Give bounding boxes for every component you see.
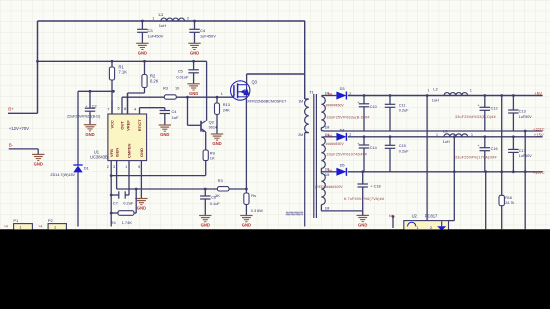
svg-text:#####450V: #####450V bbox=[326, 142, 345, 146]
svg-text:7.1K: 7.1K bbox=[119, 70, 128, 75]
svg-text:1: 1 bbox=[54, 225, 56, 229]
svg-text:GND: GND bbox=[139, 148, 144, 157]
svg-text:1M: 1M bbox=[325, 206, 330, 210]
svg-text:1uF450V: 1uF450V bbox=[200, 33, 216, 38]
svg-text:1M: 1M bbox=[298, 99, 303, 103]
svg-text:GND: GND bbox=[189, 91, 198, 96]
svg-text:0.01uF: 0.01uF bbox=[176, 74, 189, 79]
svg-text:33uF25V#%(17VA)D##: 33uF25V#%(17VA)D## bbox=[455, 156, 497, 160]
svg-text:1: 1 bbox=[20, 225, 22, 229]
svg-text:1M: 1M bbox=[325, 126, 330, 130]
svg-text:0.2uF: 0.2uF bbox=[399, 109, 409, 113]
svg-text:+15TC: +15TC bbox=[533, 171, 545, 175]
svg-text:1uH: 1uH bbox=[432, 98, 439, 102]
svg-text:1uH: 1uH bbox=[443, 140, 450, 144]
svg-text:7: 7 bbox=[107, 108, 109, 112]
svg-text:1uF450V: 1uF450V bbox=[148, 33, 164, 38]
svg-text:0.2K: 0.2K bbox=[150, 79, 159, 84]
svg-text:0.2uF: 0.2uF bbox=[399, 150, 409, 154]
svg-text:b4: b4 bbox=[328, 134, 332, 138]
svg-text:+: + bbox=[357, 142, 359, 146]
svg-text:33uF25V#%33(B-D)##: 33uF25V#%33(B-D)## bbox=[455, 115, 496, 119]
svg-text:0.2uF: 0.2uF bbox=[123, 201, 134, 206]
svg-text:GND: GND bbox=[212, 141, 221, 146]
svg-text:C11: C11 bbox=[399, 103, 406, 107]
svg-text:+15TC: +15TC bbox=[533, 128, 545, 132]
svg-text:PC817: PC817 bbox=[425, 213, 438, 218]
svg-text:>4: >4 bbox=[38, 224, 42, 228]
svg-text:C12: C12 bbox=[491, 106, 498, 110]
svg-text:24.7k: 24.7k bbox=[505, 201, 514, 205]
svg-text:C16: C16 bbox=[491, 147, 498, 151]
svg-text:GND: GND bbox=[242, 223, 251, 228]
svg-text:4: 4 bbox=[134, 108, 136, 112]
svg-text:D3: D3 bbox=[340, 86, 345, 91]
svg-text:B+: B+ bbox=[8, 107, 14, 112]
svg-text:2M: 2M bbox=[298, 133, 303, 137]
svg-text:C10: C10 bbox=[370, 105, 377, 109]
svg-text:C2: C2 bbox=[92, 104, 97, 108]
svg-text:1: 1 bbox=[152, 17, 154, 21]
svg-text:(RED)#####100V: (RED)#####100V bbox=[315, 185, 343, 189]
svg-text:R3: R3 bbox=[218, 178, 224, 183]
svg-text:+: + bbox=[85, 104, 87, 108]
svg-text:1uH: 1uH bbox=[159, 23, 166, 28]
svg-text:1.74K: 1.74K bbox=[122, 220, 133, 225]
svg-text:C4: C4 bbox=[172, 109, 178, 114]
svg-text:6: 6 bbox=[118, 107, 120, 111]
svg-text:R3: R3 bbox=[163, 86, 168, 91]
svg-text:D5: D5 bbox=[340, 162, 345, 167]
svg-text:R1: R1 bbox=[119, 64, 125, 69]
svg-text:+: + bbox=[478, 104, 480, 108]
svg-text:GND: GND bbox=[137, 206, 146, 211]
svg-text:+5V: +5V bbox=[534, 91, 542, 96]
svg-text:VFB: VFB bbox=[109, 149, 114, 157]
svg-text:L1: L1 bbox=[159, 12, 164, 17]
svg-text:1uF: 1uF bbox=[172, 115, 179, 120]
svg-text:9014: 9014 bbox=[209, 125, 217, 129]
svg-text:6.7uF50V#%6(7VA)##: 6.7uF50V#%6(7VA)## bbox=[344, 197, 384, 201]
svg-text:2: 2 bbox=[107, 165, 109, 169]
svg-text:L3: L3 bbox=[443, 128, 448, 133]
svg-text:#######: ####### bbox=[286, 211, 304, 217]
svg-text:GND: GND bbox=[160, 132, 169, 137]
svg-text:OUT: OUT bbox=[119, 121, 124, 130]
svg-text:1: 1 bbox=[221, 92, 223, 96]
svg-text:R2: R2 bbox=[150, 73, 156, 78]
svg-text:GND: GND bbox=[138, 51, 147, 56]
svg-text:b4: b4 bbox=[328, 169, 332, 173]
svg-text:GND: GND bbox=[34, 162, 43, 167]
svg-text:1K: 1K bbox=[210, 155, 215, 160]
svg-text:C6: C6 bbox=[211, 196, 216, 200]
svg-text:5: 5 bbox=[138, 165, 140, 169]
svg-text:Q2: Q2 bbox=[209, 120, 215, 125]
svg-text:b4: b4 bbox=[389, 214, 393, 218]
svg-text:+: + bbox=[478, 144, 480, 148]
svg-text:GND: GND bbox=[201, 223, 210, 228]
svg-text:L2: L2 bbox=[433, 86, 438, 91]
svg-text:R4: R4 bbox=[111, 220, 117, 225]
svg-text:>4: >4 bbox=[4, 224, 8, 228]
svg-text:VCC: VCC bbox=[109, 120, 114, 129]
svg-text:CMPEN: CMPEN bbox=[127, 143, 132, 158]
svg-text:0.3 6W: 0.3 6W bbox=[251, 209, 263, 213]
svg-text:24K: 24K bbox=[223, 107, 230, 112]
svg-text:Rs: Rs bbox=[251, 193, 256, 198]
svg-text:3: 3 bbox=[113, 165, 115, 169]
svg-text:1M: 1M bbox=[325, 173, 330, 177]
svg-text:1: 1 bbox=[436, 133, 438, 137]
svg-text:1: 1 bbox=[470, 88, 472, 92]
svg-text:b4: b4 bbox=[328, 92, 332, 96]
svg-text:P1: P1 bbox=[13, 218, 19, 223]
svg-text:8: 8 bbox=[124, 107, 126, 111]
svg-text:T1: T1 bbox=[309, 90, 314, 95]
svg-text:#####450V: #####450V bbox=[326, 103, 345, 107]
svg-text:1: 1 bbox=[471, 133, 473, 137]
svg-text:1uF50V: 1uF50V bbox=[519, 115, 532, 119]
svg-text:33uF25V#%1074D###: 33uF25V#%1074D### bbox=[327, 153, 368, 157]
svg-text:ISEN: ISEN bbox=[114, 148, 119, 157]
svg-text:+: + bbox=[357, 100, 359, 104]
svg-text:R16: R16 bbox=[505, 196, 512, 200]
svg-text:0.1uF: 0.1uF bbox=[210, 201, 221, 206]
svg-text:P2: P2 bbox=[48, 218, 54, 223]
svg-text:+ C18: + C18 bbox=[370, 185, 380, 189]
svg-text:GND: GND bbox=[85, 132, 94, 137]
svg-text:Q3: Q3 bbox=[252, 79, 258, 84]
svg-text:U2: U2 bbox=[412, 213, 418, 218]
svg-text:VREF: VREF bbox=[125, 120, 130, 131]
svg-text:2: 2 bbox=[187, 16, 189, 20]
svg-text:D1: D1 bbox=[84, 165, 90, 170]
svg-text:C13: C13 bbox=[519, 109, 526, 113]
svg-text:GND: GND bbox=[358, 223, 367, 228]
svg-text:ZD14.7(W)18V: ZD14.7(W)18V bbox=[50, 173, 75, 177]
svg-text:22uF25V#%22(B-D): 22uF25V#%22(B-D) bbox=[67, 115, 100, 119]
svg-text:B-: B- bbox=[9, 143, 14, 148]
svg-text:33uF25V#%33u(B-D)##: 33uF25V#%33u(B-D)## bbox=[327, 115, 370, 119]
svg-text:RT/CT: RT/CT bbox=[137, 119, 142, 131]
svg-text:D4: D4 bbox=[340, 127, 346, 132]
svg-text:1: 1 bbox=[428, 88, 430, 92]
svg-text:C14: C14 bbox=[370, 146, 377, 150]
svg-text:UC3843B: UC3843B bbox=[90, 154, 108, 159]
svg-text:C7: C7 bbox=[113, 201, 118, 206]
svg-text:IXFR22N60BCMOSFET: IXFR22N60BCMOSFET bbox=[247, 100, 287, 104]
svg-text:C15: C15 bbox=[399, 144, 406, 148]
svg-text:C5: C5 bbox=[178, 68, 183, 73]
svg-text:+12V+70V: +12V+70V bbox=[9, 126, 29, 131]
svg-text:1: 1 bbox=[125, 165, 127, 169]
svg-text:GND: GND bbox=[190, 51, 199, 56]
